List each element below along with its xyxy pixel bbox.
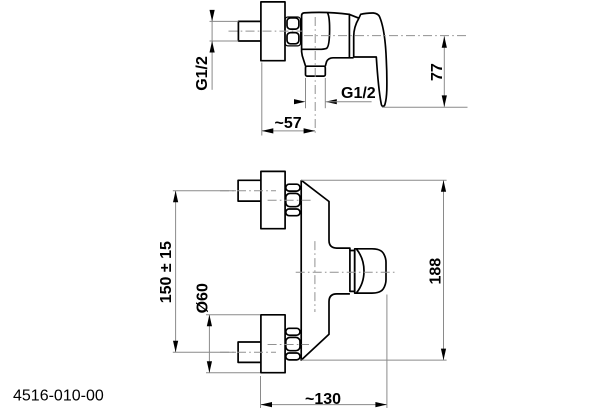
svg-text:~130: ~130 [305,391,341,408]
dim ~57: dimension line [262,130,315,132]
svg-text:77: 77 [429,63,446,81]
dim 150±15: arrow down [173,341,178,353]
dim 150±15: arrow up [173,191,178,203]
dim 77: bottom extension line [382,106,468,108]
mixer body outline (side view) [302,12,354,66]
handle lever (side view) [354,13,387,106]
svg-text:188: 188 [428,258,445,285]
dim 77: arrow up [442,36,447,48]
dim Ø60: arrow up [207,315,212,327]
dim 150±15: dimension line [175,191,177,353]
dim 77: arrow down [442,95,447,107]
handle knob dome inner arc [357,249,364,293]
dim G1/2 middle: right arrow + leader [325,99,337,104]
dim Ø60: extension lines [206,314,260,316]
dim ~57: left arrow [262,128,274,133]
center line: wall pipe axis (top view) [229,30,303,32]
cartridge dome sliver top edge (side view) [349,14,359,18]
wall flange F2 top (front view) [261,171,285,228]
dim G1/2 left: arrow up [210,41,215,53]
dim G1/2 middle: left arrow [294,99,306,104]
svg-text:Ø60: Ø60 [194,283,211,313]
dim ~57: right arrow [304,128,316,133]
shower outlet stub (side view) [306,66,326,76]
union nut N2 top: facet small lower [286,209,300,216]
union nut N2 top: facet middle [286,193,300,206]
dim 188: extension lines [301,179,446,181]
dim 188: dimension line [443,180,445,360]
dim G1/2 left: extension lines [210,20,239,22]
center line: knob axis (front view) [296,271,396,273]
dim G1/2 left: dimension line [211,10,213,90]
svg-text:G1/2: G1/2 [194,56,211,91]
dim Ø60: arrow down [207,361,212,373]
svg-text:~57: ~57 [275,115,302,132]
center line: bottom inlet axis (front view) [268,344,309,346]
dim G1/2 left: arrow down [210,10,215,22]
union nut N3 bottom: facet small lower [286,353,300,360]
union nut N2 top: facet small upper [286,184,300,191]
center line: bottom stub axis (front view) [220,351,276,353]
union nut N1 (side view) outer [285,17,301,46]
dim 150±15: extension lines [173,190,236,192]
svg-text:150 ± 15: 150 ± 15 [158,241,175,303]
wall pipe stub S3 bottom (front view) [238,342,261,362]
dim ~130: left arrow [261,402,273,407]
dim 188: arrow up [441,180,446,192]
dim ~130: dimension line [261,404,387,406]
handle knob dome (front view) [355,249,386,293]
dim ~130: extension lines [260,376,262,408]
union nut N3 bottom: facet middle [286,337,300,350]
wall pipe stub S1 (side view) [238,21,261,41]
union nut N3 bottom: facet small upper [286,328,300,335]
wall flange F1 (side view) [261,2,285,61]
wall pipe stub S2 top (front view) [238,180,261,201]
body front cover line (side view) [302,12,330,49]
center line: body vertical axis (front view) [314,241,316,312]
dim ~57: extension lines [261,63,263,136]
dim 188: arrow down [441,349,446,361]
dim ~130: right arrow [375,402,387,407]
svg-text:G1/2: G1/2 [341,85,376,102]
dim Ø60: dimension line [208,315,210,373]
center line: body axis (top view) + 77 extension [304,35,468,37]
center line: top stub axis (front view) [220,190,276,192]
dim G1/2 middle: extension lines [305,78,307,108]
mixer body outline (front view) [301,180,350,360]
svg-text:4516-010-00: 4516-010-00 [13,388,104,405]
wall flange F3 bottom (front view) [261,315,285,373]
union nut N1 facet top [287,18,299,29]
center line: top inlet axis (front view) [268,199,312,201]
center line: outlet vertical axis (top view) [314,17,316,136]
union nut N1 facet bottom [287,33,299,44]
handle ring collar (front view) [350,251,355,292]
dim 77: dimension line [443,36,445,107]
